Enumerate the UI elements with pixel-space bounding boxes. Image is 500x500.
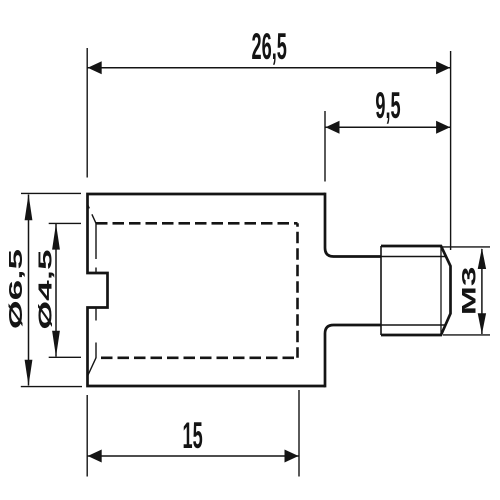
svg-text:26,5: 26,5 [252,27,287,68]
svg-text:Ø6,5: Ø6,5 [6,249,26,329]
svg-text:M3: M3 [458,267,480,316]
svg-text:Ø4,5: Ø4,5 [36,249,56,329]
svg-text:15: 15 [183,416,203,457]
svg-text:9,5: 9,5 [375,86,400,127]
